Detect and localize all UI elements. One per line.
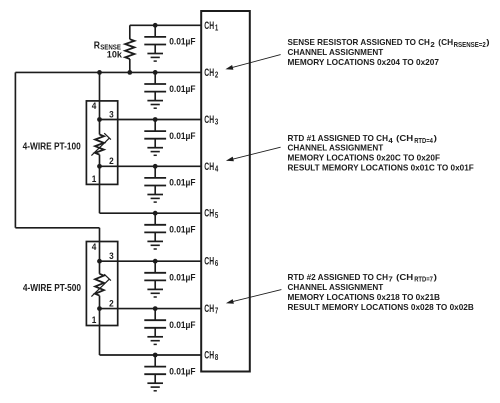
pin label CH6 (204, 256, 219, 269)
svg-text:2: 2 (109, 298, 114, 308)
svg-text:): ) (486, 37, 489, 47)
svg-text:7: 7 (215, 307, 218, 316)
svg-text:CH: CH (204, 20, 214, 32)
RTD1 arrow crossbar (104, 133, 111, 139)
wire into RTD2 pin 4 (99, 228, 101, 261)
svg-text:2: 2 (109, 156, 114, 166)
svg-text:3: 3 (215, 118, 219, 127)
junction RTD1 pin2 (97, 164, 102, 169)
wire CH7 pin (100, 308, 202, 310)
capacitor C2 0.01uF with ground (144, 72, 166, 108)
svg-text:1: 1 (92, 174, 97, 184)
svg-text:CH: CH (204, 67, 214, 79)
svg-text:4: 4 (215, 164, 219, 173)
svg-text:0.01µF: 0.01µF (169, 225, 195, 236)
svg-text:): ) (434, 272, 437, 282)
wire RTD2 pin1 to CH8 (99, 296, 101, 355)
svg-text:4-WIRE PT-100: 4-WIRE PT-100 (23, 141, 81, 153)
junction RTD1 pin3 (97, 117, 102, 122)
capacitor C5 0.01uF with ground (144, 213, 166, 249)
svg-text:CH: CH (204, 303, 214, 315)
svg-text:7: 7 (388, 277, 393, 284)
capacitor C6 0.01uF with ground (144, 261, 166, 297)
svg-text:10k: 10k (107, 50, 123, 60)
svg-text:MEMORY LOCATIONS 0x20C TO 0x20: MEMORY LOCATIONS 0x20C TO 0x20F (288, 153, 441, 163)
arrow to CH2 (225, 55, 280, 70)
pin label CH2 (204, 67, 219, 80)
pin label CH3 (204, 114, 219, 127)
wire RTD1 pin1 to CH5 (99, 155, 101, 214)
wire CH1 pin (130, 24, 201, 26)
svg-text:4: 4 (92, 242, 97, 252)
pin label CH8 (204, 350, 219, 363)
wire CH6 pin (100, 260, 202, 262)
arrow to CH4 (226, 147, 281, 161)
wire CH2 pin (15, 71, 201, 73)
svg-text:3: 3 (109, 251, 114, 261)
svg-text:RSENSE=2: RSENSE=2 (454, 42, 486, 49)
wire CH8 pin (100, 354, 202, 356)
svg-text:6: 6 (215, 259, 219, 268)
svg-text:CHANNEL ASSIGNMENT: CHANNEL ASSIGNMENT (288, 143, 384, 153)
wire left rail jog horizontal (15, 227, 99, 229)
junction RTD2 pin2 (97, 306, 102, 311)
svg-text:(CH: (CH (438, 37, 453, 47)
pin label CH7 (204, 303, 218, 316)
pin label CH1 (204, 20, 219, 33)
svg-text:RTD=7: RTD=7 (414, 277, 433, 284)
svg-text:RTD #2 ASSIGNED TO CH: RTD #2 ASSIGNED TO CH (288, 272, 389, 282)
junction cap C1 (153, 23, 158, 28)
svg-text:0.01µF: 0.01µF (169, 84, 195, 95)
junction cap C4 (153, 164, 158, 169)
svg-text:0.01µF: 0.01µF (169, 178, 195, 189)
svg-text:CH: CH (204, 114, 214, 126)
arrow to CH7 (226, 290, 282, 304)
svg-text:CH: CH (204, 161, 214, 173)
svg-text:4-WIRE PT-500: 4-WIRE PT-500 (23, 282, 81, 294)
svg-text:(CH: (CH (396, 272, 413, 282)
svg-text:): ) (434, 133, 437, 143)
svg-text:4: 4 (92, 101, 97, 111)
capacitor C4 0.01uF with ground (144, 166, 166, 202)
RTD1 element PT-100 (95, 135, 104, 155)
wire Rsense bottom lead (129, 59, 131, 72)
capacitor C7 0.01uF with ground (144, 309, 166, 345)
resistor RSENSE 10k (125, 39, 134, 59)
pin label CH5 (204, 208, 219, 221)
note block CH2 sense resistor (288, 37, 490, 67)
svg-text:RTD=4: RTD=4 (414, 138, 433, 145)
junction CH2/RSENSE (127, 70, 132, 75)
svg-text:RESULT MEMORY LOCATIONS 0x028: RESULT MEMORY LOCATIONS 0x028 TO 0x02B (288, 302, 474, 312)
svg-text:1: 1 (92, 315, 97, 325)
note block RTD2 CH7 (288, 272, 474, 312)
wire CH3 pin (100, 119, 202, 121)
junction CH2/RTD1 (97, 70, 102, 75)
svg-text:0.01µF: 0.01µF (169, 37, 195, 48)
wire RTD2 upper (99, 261, 101, 274)
junction cap C7 (153, 306, 158, 311)
svg-text:0.01µF: 0.01µF (169, 366, 195, 377)
RTD2 arrow crossbar (104, 274, 111, 280)
svg-text:CH: CH (204, 256, 214, 268)
svg-text:0.01µF: 0.01µF (169, 320, 195, 331)
wire RTD1 pin4 feed (99, 72, 101, 134)
svg-text:8: 8 (215, 353, 219, 362)
RTD1 arrow shaft (91, 138, 109, 156)
svg-text:5: 5 (215, 211, 219, 220)
svg-text:CH: CH (204, 350, 214, 362)
svg-text:RTD #1 ASSIGNED TO CH: RTD #1 ASSIGNED TO CH (288, 133, 389, 143)
svg-text:3: 3 (109, 109, 114, 119)
junction cap C6 (153, 259, 158, 264)
note block RTD1 CH4 (288, 133, 474, 173)
svg-text:4: 4 (388, 138, 393, 145)
junction cap C8 (153, 353, 158, 358)
wire CH4 pin (100, 165, 202, 167)
svg-text:2: 2 (215, 70, 219, 79)
wire Rsense top lead (129, 25, 131, 39)
capacitor C1 0.01uF with ground (144, 25, 166, 61)
wire CH5 pin (100, 212, 202, 214)
svg-text:MEMORY LOCATIONS 0x204 TO 0x20: MEMORY LOCATIONS 0x204 TO 0x207 (288, 57, 440, 67)
svg-text:(CH: (CH (396, 133, 413, 143)
RTD1 body box (86, 101, 117, 184)
svg-text:CHANNEL ASSIGNMENT: CHANNEL ASSIGNMENT (288, 47, 384, 57)
svg-text:CH: CH (204, 208, 214, 220)
capacitor C3 0.01uF with ground (144, 120, 166, 156)
RTD2 body box (86, 242, 117, 326)
RTD2 element PT-500 (95, 274, 104, 296)
svg-text:RESULT MEMORY LOCATIONS 0x01C: RESULT MEMORY LOCATIONS 0x01C TO 0x01F (288, 163, 474, 173)
junction cap C2 (153, 70, 158, 75)
svg-text:SENSE RESISTOR ASSIGNED TO CH: SENSE RESISTOR ASSIGNED TO CH (288, 37, 430, 47)
junction cap C5 (153, 211, 158, 216)
junction RTD2 pin3 (97, 259, 102, 264)
svg-text:0.01µF: 0.01µF (169, 131, 195, 142)
svg-text:CHANNEL ASSIGNMENT: CHANNEL ASSIGNMENT (288, 282, 384, 292)
junction cap C3 (153, 117, 158, 122)
pin label CH4 (204, 161, 219, 174)
svg-text:2: 2 (430, 42, 435, 49)
svg-text:1: 1 (215, 23, 219, 32)
IC chip body (201, 11, 250, 372)
capacitor C8 0.01uF with ground (144, 355, 166, 391)
RTD2 arrow shaft (91, 279, 109, 297)
svg-text:MEMORY LOCATIONS 0x218 TO 0x21: MEMORY LOCATIONS 0x218 TO 0x21B (288, 292, 441, 302)
svg-text:0.01µF: 0.01µF (169, 273, 195, 284)
wire left rail vertical (14, 72, 16, 227)
label RSENSE (94, 39, 122, 51)
